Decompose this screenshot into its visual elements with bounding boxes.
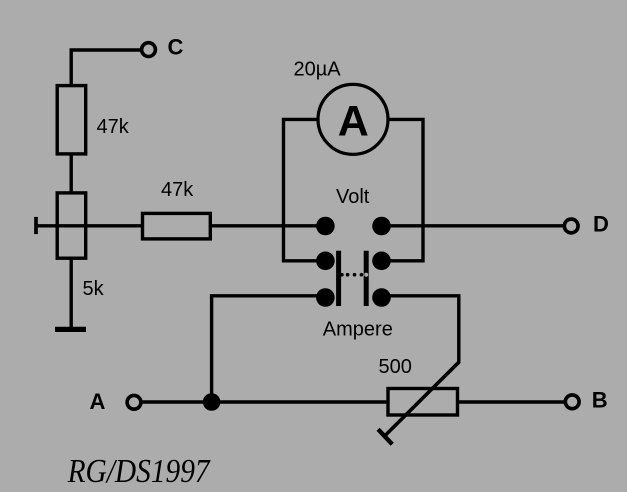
rheostat R4 wiper end bar (378, 429, 392, 444)
switch S1 left actuator bar (336, 251, 341, 306)
terminal C (142, 43, 156, 57)
svg-text:C: C (168, 34, 184, 59)
switch S1 pole dot middle-left (316, 251, 335, 270)
svg-text:A: A (90, 389, 106, 414)
switch S1 contact dot bottom-right (372, 288, 391, 307)
svg-text:RG/DS1997: RG/DS1997 (67, 453, 212, 490)
wire switch bottom-left contact to junction (212, 296, 326, 402)
switch S1 contact dot top-right (372, 217, 391, 236)
rheostat R4 wiper diagonal arrow (385, 362, 460, 436)
svg-text:Volt: Volt (336, 186, 370, 208)
wire switch bottom-right contact down to rheostat wiper (382, 296, 459, 363)
resistor R1 body (47k) (57, 86, 85, 154)
switch S1 contact dot bottom-left (316, 288, 335, 307)
svg-text:47k: 47k (161, 179, 194, 201)
wire terminal A to R4 left (141, 400, 391, 403)
switch S1 contact dot top-left (316, 217, 335, 236)
wire C terminal to R1 top (71, 50, 141, 87)
wire R4 right to terminal B (455, 400, 564, 403)
resistor R3 body (47k) (143, 213, 211, 239)
ammeter M1 (318, 84, 388, 154)
svg-text:20µA: 20µA (294, 59, 342, 81)
svg-text:47k: 47k (97, 116, 130, 138)
svg-text:A: A (338, 97, 369, 145)
terminal B (565, 395, 579, 409)
switch S1 pole dot middle-right (372, 251, 391, 270)
junction node at A wire (203, 393, 221, 411)
terminal D (564, 219, 578, 233)
svg-text:Ampere: Ampere (323, 319, 393, 341)
rheostat R4 body (500) (388, 389, 458, 416)
wire meter right lead down to switch middle-right contact (382, 119, 424, 260)
svg-text:D: D (593, 212, 609, 237)
wire meter left lead down to switch middle-left contact (284, 119, 326, 260)
wire R2 bottom to end stub (69, 256, 72, 329)
terminal A (127, 395, 141, 409)
svg-text:500: 500 (379, 356, 412, 378)
svg-text:5k: 5k (83, 278, 105, 300)
wire wiper line through R2 to R3 and to switch top-left contact (36, 224, 325, 227)
potentiometer R2 body (5k) (57, 193, 85, 258)
svg-text:B: B (592, 388, 608, 413)
wiper terminal T-bar (34, 217, 38, 234)
switch S1 coupling dotted link (340, 273, 368, 277)
open end stub bar (55, 327, 86, 332)
switch S1 right actuator bar (364, 251, 369, 306)
wire switch top-right contact to terminal D (382, 224, 565, 227)
wire R1 bottom to R2 top (69, 152, 72, 195)
